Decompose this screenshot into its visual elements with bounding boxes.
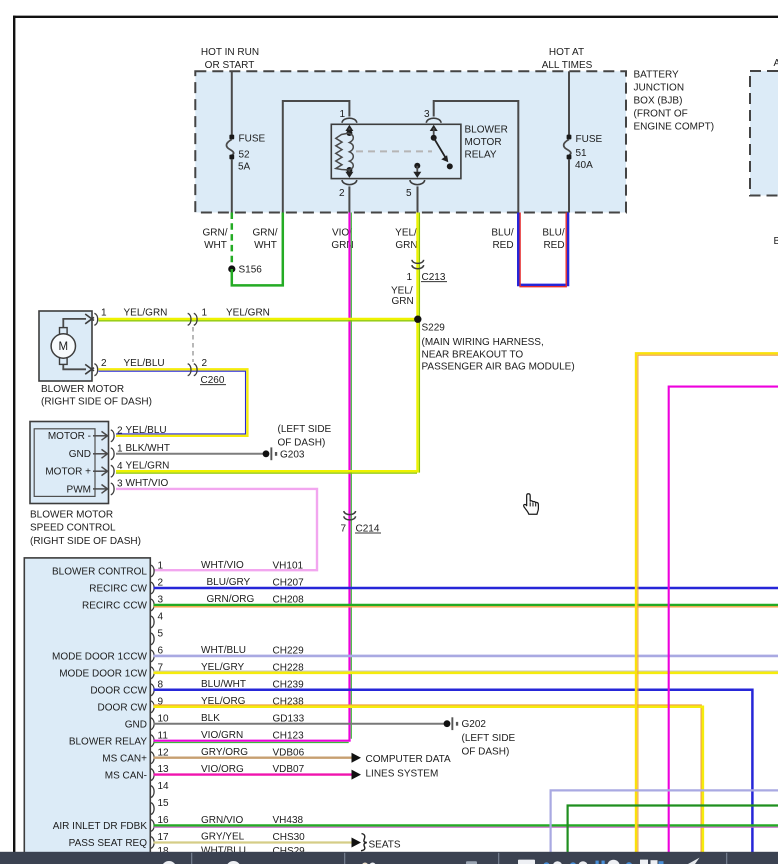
svg-text:WHT/VIO: WHT/VIO — [126, 478, 169, 489]
HVAC control module box — [24, 558, 150, 864]
svg-text:HOT AT: HOT AT — [549, 47, 584, 58]
svg-text:3: 3 — [424, 109, 430, 120]
svg-text:AIR INLET DR FDBK: AIR INLET DR FDBK — [53, 821, 148, 832]
module pin 16 (AIR INLET DR FDBK) — [53, 815, 304, 832]
svg-text:WHT/BLU: WHT/BLU — [201, 645, 246, 656]
svg-text:FUSE: FUSE — [239, 134, 266, 145]
wire: fuse 52 to box edge — [231, 159, 233, 212]
svg-text:(LEFT SIDE: (LEFT SIDE — [278, 424, 332, 435]
wire label VIO/GRN — [331, 228, 353, 252]
relay actuation dashed link — [356, 150, 432, 152]
computer data lines note — [366, 754, 452, 780]
svg-text:BLU/: BLU/ — [491, 228, 513, 239]
svg-text:BLOWER RELAY: BLOWER RELAY — [69, 736, 147, 747]
svg-text:PASS SEAT REQ: PASS SEAT REQ — [69, 838, 148, 849]
wire: relay pin 3 over to fuse-51 column — [434, 101, 519, 213]
svg-text:FUSE: FUSE — [576, 134, 603, 145]
relay pin 1 connector — [339, 109, 356, 133]
svg-text:G202: G202 — [462, 719, 487, 730]
wire label BLU/RED (left) — [491, 228, 513, 252]
svg-text:GND: GND — [69, 449, 91, 460]
svg-text:7: 7 — [340, 523, 346, 534]
wire label YEL/GRN — [395, 228, 417, 252]
wire row3 GRN/ORG — [154, 604, 778, 606]
svg-text:GRN/VIO: GRN/VIO — [201, 815, 243, 826]
connector C260 — [188, 308, 226, 387]
svg-text:MS CAN+: MS CAN+ — [102, 753, 147, 764]
svg-text:WHT: WHT — [254, 240, 277, 251]
relay pin 3 connector — [424, 109, 441, 136]
svg-text:VH101: VH101 — [273, 561, 304, 572]
svg-text:GRN/: GRN/ — [253, 228, 278, 239]
module pin 10 (GND) — [125, 713, 305, 731]
svg-text:LINES SYSTEM: LINES SYSTEM — [366, 769, 439, 780]
wire: relay pin 2 to box edge — [348, 186, 350, 212]
svg-text:10: 10 — [158, 713, 170, 724]
svg-text:14: 14 — [158, 781, 170, 792]
svg-text:WHT/VIO: WHT/VIO — [201, 560, 244, 571]
svg-text:GRN/ORG: GRN/ORG — [207, 594, 255, 605]
module pin 3 (RECIRC CCW) — [82, 594, 304, 612]
svg-text:BLOWER CONTROL: BLOWER CONTROL — [52, 567, 147, 578]
G202 location note — [462, 733, 516, 758]
svg-text:GRN: GRN — [395, 240, 417, 251]
relay pin 5 connector — [406, 163, 425, 199]
wire row9 YEL/ORG — [154, 705, 702, 852]
wire label GRN/WHT (dashed run) — [203, 228, 228, 252]
module pin 4 — [151, 612, 164, 628]
svg-text:PWM: PWM — [67, 484, 91, 495]
svg-text:YEL/GRN: YEL/GRN — [126, 460, 170, 471]
svg-text:4: 4 — [158, 612, 164, 623]
svg-text:5A: 5A — [238, 162, 251, 173]
connector C214 — [340, 511, 381, 534]
module pin 14 — [151, 781, 169, 797]
svg-text:5: 5 — [158, 629, 164, 640]
wire row16 GRN/VIO — [154, 824, 778, 826]
svg-text:DOOR CW: DOOR CW — [98, 703, 148, 714]
wire: fuse 51 to box edge — [568, 159, 570, 212]
motor pin 1 — [85, 308, 107, 326]
svg-text:BLK/WHT: BLK/WHT — [126, 443, 170, 454]
wire label GRN/WHT (solid run) — [253, 228, 278, 252]
svg-text:ALL TIMES: ALL TIMES — [542, 60, 593, 71]
svg-text:YEL/: YEL/ — [395, 228, 417, 239]
wire VIO (right, corner at 668.7,386.6) — [669, 387, 778, 852]
svg-text:(LEFT SIDE: (LEFT SIDE — [462, 733, 516, 744]
frame top border — [13, 16, 778, 18]
wire WHT/BLU (bottom, corner at 550.6,790.4) — [551, 790, 778, 852]
module pin 2 (RECIRC CW) — [89, 577, 304, 595]
speed control pin 4 (MOTOR +) — [45, 460, 169, 477]
battery junction box (BJB) — [195, 71, 626, 212]
wire GRN/WHT dashed from fuse 52 — [231, 213, 234, 269]
relay label — [465, 125, 508, 161]
wire YEL/GRN relay pin5 down through C213 / S229 — [416, 213, 418, 473]
module pin 9 (DOOR CW) — [98, 696, 305, 714]
svg-text:1: 1 — [339, 109, 345, 120]
svg-text:5: 5 — [406, 188, 412, 199]
svg-text:WHT: WHT — [204, 240, 227, 251]
svg-text:51: 51 — [576, 148, 588, 159]
motor M symbol — [51, 319, 86, 369]
wire: GRN/WHT branch up to relay pin 1 — [283, 101, 350, 213]
module pin 7 (MODE DOOR 1CW) — [59, 662, 304, 680]
svg-text:OF DASH): OF DASH) — [462, 747, 510, 758]
svg-text:YEL/: YEL/ — [391, 286, 413, 297]
svg-text:VIO/ORG: VIO/ORG — [201, 764, 244, 775]
speed control pin 2 (MOTOR -) — [48, 425, 167, 442]
svg-text:YEL/GRN: YEL/GRN — [124, 308, 168, 319]
wire label YEL/BLU (pin2) — [124, 358, 165, 369]
module pin 5 — [151, 629, 164, 645]
speed control caption — [30, 509, 141, 547]
svg-text:15: 15 — [158, 798, 170, 809]
svg-text:YEL/BLU: YEL/BLU — [124, 358, 165, 369]
wire WHT/VIO PWM to module pin 1 — [116, 489, 317, 570]
relay coil — [336, 130, 354, 173]
HOT AT ALL TIMES label — [542, 47, 593, 71]
svg-text:MOTOR: MOTOR — [465, 137, 502, 148]
blower motor relay box — [331, 124, 461, 178]
ground G202 — [444, 717, 487, 730]
svg-text:BLOWER: BLOWER — [465, 125, 508, 136]
svg-text:A: A — [774, 58, 778, 69]
svg-text:COMPUTER DATA: COMPUTER DATA — [366, 754, 452, 765]
svg-text:(RIGHT SIDE OF DASH): (RIGHT SIDE OF DASH) — [30, 536, 141, 547]
svg-text:2: 2 — [101, 358, 107, 369]
wire row11 VIO/GRN to relay drop — [154, 740, 351, 742]
svg-text:M: M — [59, 341, 69, 353]
relay pin 2 connector — [339, 170, 357, 199]
speed control pin 1 (GND) — [69, 443, 170, 460]
module pin 13 (MS CAN-) — [105, 764, 305, 782]
wire: feed into fuse 52 — [231, 71, 233, 136]
svg-text:JUNCTION: JUNCTION — [634, 83, 685, 94]
svg-text:GD133: GD133 — [273, 713, 305, 724]
HOT IN RUN OR START label — [201, 47, 259, 71]
svg-text:SPEED CONTROL: SPEED CONTROL — [30, 523, 116, 534]
splice S229 — [414, 316, 445, 334]
svg-text:ENGINE COMPT): ENGINE COMPT) — [634, 122, 715, 133]
wire row12 GRY/ORG (MS CAN+) — [154, 757, 352, 759]
svg-text:YEL/BLU: YEL/BLU — [126, 425, 167, 436]
svg-text:B: B — [774, 236, 778, 247]
off-page arrow MS CAN- — [352, 770, 362, 780]
svg-text:2: 2 — [202, 358, 208, 369]
svg-text:40A: 40A — [575, 160, 593, 171]
wire row2 BLU/GRY — [154, 587, 778, 590]
svg-text:G203: G203 — [280, 449, 305, 460]
svg-text:GRN: GRN — [392, 296, 414, 307]
svg-text:BOX (BJB): BOX (BJB) — [634, 96, 683, 107]
wire row7 YEL/GRY — [154, 670, 778, 672]
blower motor box — [39, 311, 92, 381]
svg-text:MODE DOOR 1CW: MODE DOOR 1CW — [59, 669, 147, 680]
svg-text:OF DASH): OF DASH) — [278, 437, 326, 448]
wire label YEL/GRN (pin1, right of C260) — [226, 308, 270, 319]
blower motor caption — [41, 384, 152, 408]
wire row8 BLU/WHT — [154, 690, 753, 852]
svg-text:BLOWER MOTOR: BLOWER MOTOR — [41, 384, 124, 395]
svg-text:HOT IN RUN: HOT IN RUN — [201, 47, 259, 58]
svg-text:1: 1 — [158, 561, 164, 572]
svg-text:MS CAN-: MS CAN- — [105, 770, 147, 781]
svg-text:4: 4 — [117, 461, 123, 472]
wire YEL (right, corner at 636,353) — [636, 353, 778, 852]
G203 location note — [278, 424, 332, 448]
wire label YEL/GRN below C213 — [391, 286, 414, 307]
svg-text:1: 1 — [101, 308, 107, 319]
wire row17 GRY/YEL (PASS SEAT REQ) — [154, 841, 352, 843]
red label fragment A — [774, 58, 778, 69]
taskbar icon fragments — [162, 861, 177, 864]
svg-text:MODE DOOR 1CCW: MODE DOOR 1CCW — [52, 652, 148, 663]
svg-text:YEL/GRN: YEL/GRN — [226, 308, 270, 319]
off-page arrow PASS SEAT REQ — [352, 838, 362, 848]
S229 location note — [422, 337, 575, 372]
taskbar — [0, 852, 778, 864]
svg-text:2: 2 — [117, 425, 123, 436]
relay switch — [431, 135, 453, 170]
svg-text:(MAIN WIRING HARNESS,: (MAIN WIRING HARNESS, — [422, 337, 544, 348]
svg-text:1: 1 — [117, 443, 123, 454]
svg-text:RECIRC CCW: RECIRC CCW — [82, 601, 148, 612]
svg-text:NEAR BREAKOUT TO: NEAR BREAKOUT TO — [422, 349, 524, 360]
svg-text:VIO/GRN: VIO/GRN — [201, 730, 243, 741]
fuse 51 40A — [564, 134, 603, 171]
wire BLK/WHT to ground G203 — [116, 453, 263, 455]
frame left border — [13, 16, 15, 852]
mouse hand cursor — [524, 494, 539, 514]
off-page arrow MS CAN+ — [352, 753, 362, 763]
splice S156 — [228, 265, 262, 276]
wire label YEL/GRN (pin1, left of C260) — [124, 308, 168, 319]
wire: relay pin 5 to box edge — [417, 186, 419, 212]
module pin 11 (BLOWER RELAY) — [69, 730, 304, 748]
svg-text:2: 2 — [339, 188, 345, 199]
module pin 1 (BLOWER CONTROL) — [52, 560, 304, 578]
svg-text:BLU/WHT: BLU/WHT — [201, 679, 246, 690]
module pin 12 (MS CAN+) — [102, 747, 304, 765]
svg-text:S229: S229 — [422, 323, 446, 334]
SEATS brace and label — [361, 834, 401, 851]
svg-text:BLOWER MOTOR: BLOWER MOTOR — [30, 509, 113, 520]
svg-text:BLU/: BLU/ — [542, 228, 564, 239]
speed control pin 3 (PWM) — [67, 478, 169, 495]
svg-text:OR START: OR START — [205, 60, 255, 71]
svg-text:1: 1 — [406, 272, 412, 283]
svg-text:RED: RED — [543, 240, 564, 251]
svg-text:RELAY: RELAY — [465, 149, 497, 160]
svg-text:(RIGHT SIDE OF DASH): (RIGHT SIDE OF DASH) — [41, 397, 152, 408]
svg-text:BLU/GRY: BLU/GRY — [207, 577, 251, 588]
svg-text:GRN/: GRN/ — [203, 228, 228, 239]
wire YEL/BLU motor pin2 to speed control pin 2 — [99, 369, 248, 436]
wire YEL/GRN blower motor pin1 to S229 — [99, 318, 418, 320]
svg-text:MOTOR +: MOTOR + — [45, 467, 91, 478]
svg-text:MOTOR -: MOTOR - — [48, 431, 91, 442]
blower motor speed control box — [30, 422, 109, 504]
wire row13 VIO/ORG (MS CAN-) — [154, 773, 352, 775]
wire row10 BLK to ground G202 — [154, 723, 445, 725]
wire GRN (bottom, corner at 567.6,805.5) — [568, 806, 778, 853]
module pin 6 (MODE DOOR 1CCW) — [52, 645, 304, 663]
svg-text:GND: GND — [125, 719, 147, 730]
wire label BLU/RED (right) — [542, 228, 564, 252]
motor pin 2 — [85, 358, 107, 376]
wire VIO/GRN relay pin2 down to module row 11 — [348, 213, 350, 741]
svg-text:S156: S156 — [239, 265, 263, 276]
module pin 15 — [151, 798, 169, 814]
svg-text:PASSENGER AIR BAG MODULE): PASSENGER AIR BAG MODULE) — [422, 361, 575, 372]
svg-text:1: 1 — [202, 308, 208, 319]
module pin 8 (DOOR CCW) — [90, 679, 304, 697]
svg-text:RECIRC CW: RECIRC CW — [89, 584, 147, 595]
module pin 18 — [151, 846, 305, 864]
ground G203 — [263, 447, 305, 460]
svg-text:RED: RED — [492, 240, 513, 251]
svg-text:GRY/ORG: GRY/ORG — [201, 747, 248, 758]
svg-text:(FRONT OF: (FRONT OF — [634, 109, 688, 120]
wire BLU/RED U-loop — [518, 213, 568, 285]
svg-text:DOOR CCW: DOOR CCW — [90, 686, 147, 697]
label fragment B (right edge) — [774, 236, 778, 247]
module pin 17 (PASS SEAT REQ) — [69, 832, 306, 850]
svg-text:BLK: BLK — [201, 713, 220, 724]
wire: feed into fuse 51 — [568, 71, 570, 136]
svg-text:GRY/YEL: GRY/YEL — [201, 832, 245, 843]
svg-text:BATTERY: BATTERY — [634, 70, 680, 81]
BJB label text — [634, 70, 715, 133]
dashed box (partial, upper right) — [750, 71, 778, 196]
connector C213 — [406, 260, 447, 283]
svg-text:SEATS: SEATS — [369, 839, 401, 850]
wire GRN/WHT solid U-turn to relay pin1 branch — [232, 213, 283, 286]
wire YEL/GRN S229 down-leg to speed control pin 4 — [116, 470, 419, 472]
fuse 52 5A — [226, 134, 265, 173]
svg-text:52: 52 — [239, 150, 251, 161]
wire row6 WHT/BLU — [154, 655, 778, 658]
